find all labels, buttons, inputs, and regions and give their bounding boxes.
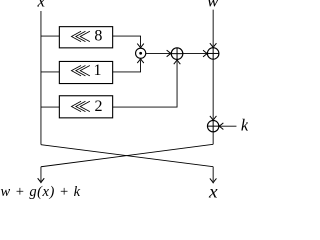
svg-text:k: k bbox=[241, 116, 248, 135]
XOR1 bbox=[171, 48, 183, 60]
wire S1 output to AND bbox=[113, 60, 141, 72]
wire left output drop bbox=[40, 167, 42, 181]
arrowhead left output bbox=[38, 178, 45, 182]
arrowhead into XOR1 bottom bbox=[174, 60, 181, 64]
arrowhead into XOR2 top bbox=[210, 43, 217, 47]
arrowhead into XOR3 top bbox=[210, 116, 217, 120]
wire branch to rot2 box bbox=[41, 106, 59, 108]
wire x input vertical bbox=[40, 11, 42, 145]
wire crossover x-line diagonal bbox=[41, 145, 213, 167]
wire right output drop bbox=[212, 167, 214, 182]
wire w input vertical to XOR2 bbox=[212, 10, 214, 46]
svg-text:8: 8 bbox=[94, 27, 102, 44]
block S2 (left-rotate by 2) bbox=[59, 96, 112, 118]
wire k input bbox=[220, 125, 236, 127]
svg-text:2: 2 bbox=[94, 98, 102, 115]
block S1 (left-rotate by 1) bbox=[59, 61, 112, 83]
arrowhead into XOR2 left bbox=[203, 50, 207, 57]
svg-text:x: x bbox=[208, 182, 218, 202]
arrowhead right output bbox=[210, 178, 217, 182]
wire AND to XOR1 bbox=[146, 52, 171, 54]
wire XOR1 to XOR2 bbox=[183, 53, 207, 55]
wire S2 output up to XOR1 bbox=[113, 61, 177, 107]
wire XOR3 down to crossover bbox=[212, 132, 214, 144]
svg-text:w + g(x) + k: w + g(x) + k bbox=[0, 184, 80, 200]
svg-text:w: w bbox=[207, 0, 219, 10]
wire branch to rot1 box bbox=[41, 71, 59, 73]
wire S8 output to AND bbox=[113, 36, 141, 46]
block S8 (left-rotate by 8) bbox=[59, 27, 112, 48]
svg-text:1: 1 bbox=[93, 62, 101, 79]
AND gate (circle-dot) bbox=[136, 48, 146, 58]
arrowhead into XOR1 left bbox=[167, 50, 171, 57]
wire XOR2 down to XOR3 bbox=[212, 59, 214, 119]
arrowhead into XOR3 right bbox=[219, 123, 223, 130]
arrowhead into AND bottom bbox=[137, 59, 144, 63]
arrowhead into AND top bbox=[137, 44, 144, 48]
XOR2 bbox=[207, 48, 219, 60]
wire crossover w-line diagonal bbox=[41, 144, 213, 166]
XOR3 (key addition) bbox=[207, 120, 218, 131]
wire branch to rot8 box bbox=[41, 35, 59, 37]
svg-text:x: x bbox=[37, 0, 46, 10]
